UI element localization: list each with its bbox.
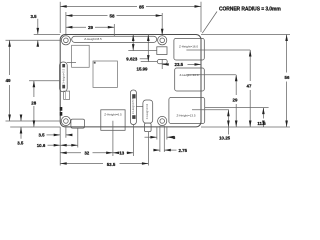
svg-text:Z-Height=5.5: Z-Height=5.5	[131, 97, 135, 114]
svg-text:Z-Height=13.5: Z-Height=13.5	[176, 113, 195, 117]
ethernet label leader	[186, 49, 250, 51]
dim 2.75 hole diameter	[154, 126, 188, 153]
svg-text:Z-Height=6.5: Z-Height=6.5	[104, 112, 122, 116]
middle USB label leader	[187, 74, 236, 76]
dim 28 left	[31, 81, 36, 127]
svg-text:13: 13	[119, 151, 124, 156]
audio center extension	[147, 132, 149, 166]
dim 53.5 bottom	[60, 162, 148, 167]
leader to square component	[128, 50, 157, 52]
svg-text:CORNER RADIUS = 3.0mm: CORNER RADIUS = 3.0mm	[219, 6, 281, 12]
svg-text:3.5: 3.5	[38, 132, 45, 137]
dim 11.5 right	[257, 108, 266, 127]
GPIO header J8	[72, 36, 157, 42]
svg-text:49: 49	[5, 78, 11, 83]
dim 10.25 right	[219, 110, 231, 141]
dim 3.5 bottom (edge to hole)	[38, 126, 72, 138]
dim 56 right	[285, 35, 290, 128]
dim 85 top	[60, 2, 201, 33]
svg-text:6: 6	[173, 135, 176, 141]
left edge extension down	[59, 127, 61, 166]
mounting hole bottom-right	[158, 116, 167, 125]
bottom edge extension left	[10, 126, 60, 128]
svg-text:10.25: 10.25	[219, 135, 231, 140]
svg-text:2.75: 2.75	[179, 148, 188, 153]
dim 58 hole arrow top-right	[161, 30, 163, 35]
dim 6 bottom right	[145, 127, 176, 141]
svg-text:32: 32	[84, 151, 89, 156]
dim 32 bottom	[60, 151, 112, 156]
hole center line row2	[6, 120, 62, 122]
svg-text:58: 58	[109, 14, 115, 19]
dim 10.6 bottom	[37, 129, 78, 148]
bottom edge extension right	[201, 126, 290, 128]
top edge extension right	[201, 34, 290, 36]
CSI to audio link line	[136, 106, 143, 108]
svg-text:28: 28	[31, 100, 36, 105]
CSI center extension	[132, 125, 134, 157]
board outline	[60, 35, 201, 127]
svg-text:29: 29	[233, 98, 238, 103]
bottom USB center leader	[192, 109, 229, 111]
svg-text:47: 47	[247, 83, 252, 88]
USB connector bottom	[169, 98, 205, 124]
dim 23.5 right	[162, 59, 201, 69]
dim 47 right	[247, 50, 252, 127]
svg-text:29: 29	[88, 25, 94, 30]
component square near top-right hole	[157, 47, 167, 55]
svg-text:23.5: 23.5	[175, 62, 184, 67]
dim 15.99	[137, 35, 149, 72]
leader to stadium component	[141, 61, 158, 63]
svg-text:3.5: 3.5	[30, 14, 37, 19]
Ethernet connector	[174, 38, 204, 60]
small stadium component	[157, 59, 167, 63]
reference line for 11.5 dim	[205, 107, 269, 109]
micro-USB power connector	[71, 119, 85, 128]
svg-text:9.623: 9.623	[126, 57, 138, 62]
dim 29 right	[233, 75, 238, 127]
dim 49 left	[5, 40, 11, 121]
svg-text:Z-Height=8.5: Z-Height=8.5	[84, 37, 102, 41]
DSI display connector	[60, 62, 68, 92]
hole center line row1	[6, 39, 62, 41]
mounting hole top-right	[158, 36, 167, 45]
USB connector middle	[175, 68, 205, 91]
SoC chip U1	[72, 45, 90, 67]
DSI label leader	[67, 62, 76, 64]
sd card marks on left edge	[60, 107, 63, 116]
svg-text:Z-Height=5.5: Z-Height=5.5	[61, 68, 65, 85]
svg-text:10.6: 10.6	[37, 143, 46, 148]
dim 9.623	[126, 35, 148, 62]
svg-text:Z-Height=16.0: Z-Height=16.0	[179, 45, 198, 49]
svg-text:Z-Height=13: Z-Height=13	[145, 103, 149, 119]
audio jack	[143, 100, 153, 132]
svg-text:15.99: 15.99	[137, 66, 149, 71]
dim 29 top	[66, 24, 114, 36]
dim 58 top	[66, 12, 162, 34]
HDMI connector	[101, 110, 125, 131]
svg-text:53.5: 53.5	[107, 162, 116, 167]
svg-text:3.5: 3.5	[17, 141, 24, 146]
dim 13 bottom	[113, 151, 134, 156]
svg-text:85: 85	[139, 4, 145, 9]
DSI left leader	[29, 80, 60, 82]
svg-text:11.5: 11.5	[257, 121, 266, 126]
mounting hole top-left	[61, 36, 70, 45]
component below DSI	[64, 91, 70, 99]
corner radius note	[202, 6, 281, 33]
CSI camera connector	[130, 90, 136, 125]
dim 3.5 left vertical	[17, 115, 24, 146]
dim 3.5 top-left	[30, 14, 60, 47]
memory chip U2	[93, 61, 117, 87]
HDMI center extension line	[112, 121, 114, 156]
mounting hole bottom-left	[61, 116, 70, 125]
svg-text:56: 56	[285, 75, 290, 80]
